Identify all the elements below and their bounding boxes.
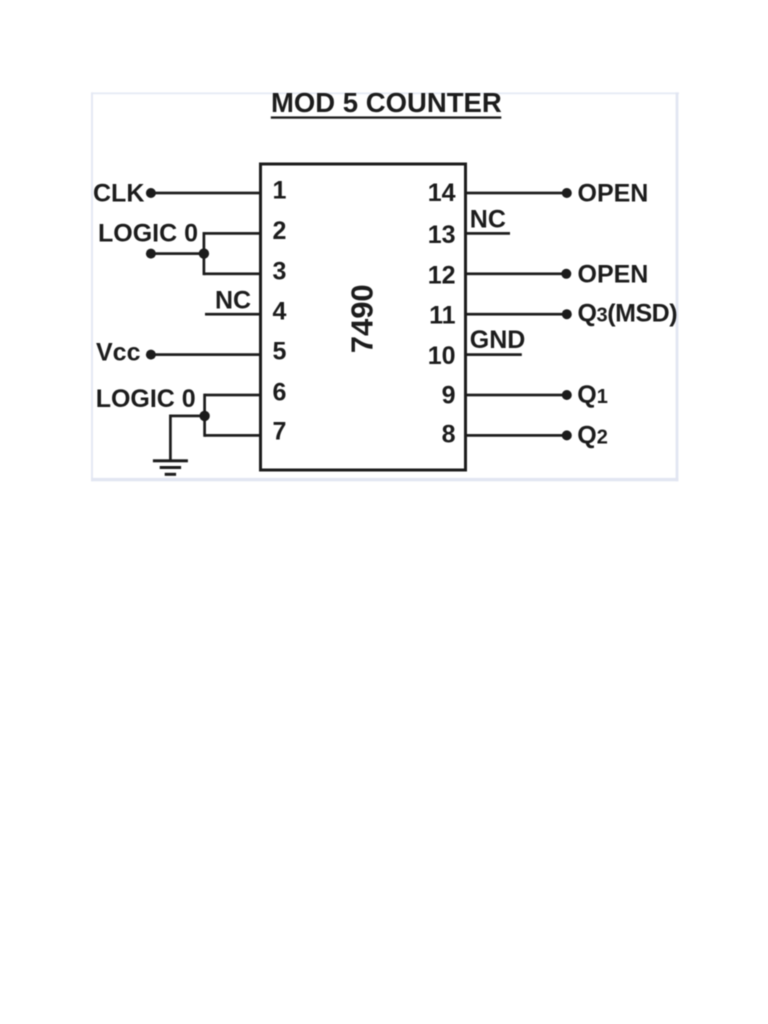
wire ground vertical	[169, 415, 172, 461]
svg-text:7490: 7490	[345, 284, 380, 353]
wire vertical joining pins 2 and 3	[203, 232, 206, 275]
svg-text:OPEN: OPEN	[578, 260, 649, 288]
svg-text:3: 3	[273, 257, 287, 285]
node OPEN terminal dot (pin 14)	[562, 188, 572, 198]
wire Vcc to pin 5	[151, 353, 261, 356]
wire pin 3	[204, 272, 261, 275]
svg-text:MOD 5 COUNTER: MOD 5 COUNTER	[271, 87, 502, 118]
wire pin 10 GND stub	[466, 353, 522, 356]
svg-text:Q3(MSD): Q3(MSD)	[578, 300, 678, 328]
svg-text:6: 6	[273, 379, 287, 407]
node CLK terminal dot	[146, 188, 156, 198]
wire pin 12 to OPEN	[466, 272, 568, 275]
svg-text:LOGIC 0: LOGIC 0	[98, 220, 198, 248]
wire pin 6	[205, 394, 261, 397]
wire pin 8 to Q2	[466, 434, 568, 437]
wire LOGIC 0 stub to junction	[151, 252, 204, 255]
svg-text:NC: NC	[470, 206, 506, 234]
node OPEN terminal dot (pin 12)	[561, 269, 571, 279]
svg-text:2: 2	[273, 217, 287, 245]
svg-text:14: 14	[428, 179, 456, 207]
svg-text:7: 7	[273, 417, 287, 445]
svg-text:10: 10	[428, 342, 456, 370]
svg-text:1: 1	[273, 177, 287, 205]
node LOGIC 0 terminal dot	[146, 249, 156, 259]
svg-text:Vcc: Vcc	[96, 339, 141, 367]
node Q3 terminal dot	[562, 309, 572, 319]
svg-text:Q2: Q2	[577, 422, 608, 450]
wire CLK to pin 1	[151, 192, 261, 195]
node Q1 terminal dot	[562, 390, 572, 400]
wire junction to ground horizontal	[170, 415, 204, 418]
svg-text:11: 11	[429, 302, 456, 330]
svg-text:Q1: Q1	[577, 381, 608, 409]
svg-text:12: 12	[428, 262, 456, 290]
wire pin 14 to OPEN	[466, 192, 568, 195]
svg-text:9: 9	[442, 381, 456, 409]
node Q2 terminal dot	[562, 430, 572, 440]
ground symbol	[153, 459, 188, 476]
wire pin 11 to Q3	[466, 313, 568, 316]
svg-text:5: 5	[273, 337, 287, 365]
svg-text:CLK: CLK	[93, 180, 144, 208]
wire pin 13 NC stub	[466, 232, 511, 235]
svg-text:13: 13	[428, 221, 456, 249]
wire pin 9 to Q1	[466, 394, 568, 397]
svg-text:4: 4	[273, 297, 287, 325]
wire vertical joining pins 6 and 7	[203, 394, 206, 437]
svg-text:LOGIC 0: LOGIC 0	[96, 385, 196, 413]
wire pin 7	[205, 434, 261, 437]
IC U1 7490 body	[261, 164, 466, 470]
junction dot pins 2-3	[199, 248, 209, 258]
svg-text:OPEN: OPEN	[578, 180, 649, 208]
wire pin 2	[204, 232, 261, 235]
title MOD 5 COUNTER	[271, 87, 502, 119]
wire pin 4 NC stub	[205, 313, 261, 316]
svg-text:GND: GND	[470, 326, 526, 354]
svg-text:8: 8	[442, 421, 456, 449]
junction dot pins 6-7	[199, 411, 209, 421]
svg-text:NC: NC	[215, 287, 251, 315]
node Vcc terminal dot	[146, 350, 156, 360]
